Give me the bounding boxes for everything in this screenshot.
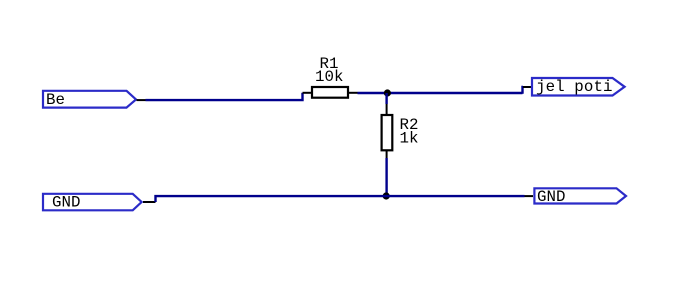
wire node A to port jel poti xyxy=(523,87,532,94)
wire GND rail xyxy=(143,196,533,202)
resistor R2 xyxy=(382,115,393,150)
svg-text:jel poti: jel poti xyxy=(536,78,613,96)
node B junction xyxy=(383,192,390,199)
port jel poti xyxy=(532,78,625,96)
svg-text:Be: Be xyxy=(46,91,65,109)
svg-text:GND: GND xyxy=(52,194,80,212)
svg-text:10k: 10k xyxy=(315,68,343,86)
port Be xyxy=(43,91,136,109)
wire node A to R2 xyxy=(385,93,387,115)
svg-text:GND: GND xyxy=(537,188,565,206)
port GND right xyxy=(534,188,626,206)
wire Be to R1 xyxy=(137,93,312,100)
wire R2 to node B xyxy=(386,150,388,196)
port GND left xyxy=(43,194,142,212)
node A junction xyxy=(384,89,391,96)
resistor R1 xyxy=(312,87,348,98)
wire R1 to node A xyxy=(349,92,523,94)
svg-text:1k: 1k xyxy=(400,130,419,148)
